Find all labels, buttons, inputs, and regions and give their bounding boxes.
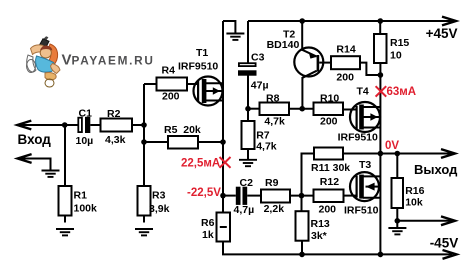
- svg-text:3k*: 3k*: [311, 230, 328, 242]
- svg-text:Вход: Вход: [18, 132, 52, 147]
- svg-text:+45V: +45V: [426, 26, 458, 41]
- svg-text:-22,5V: -22,5V: [187, 187, 221, 199]
- svg-text:22,5мА: 22,5мА: [181, 158, 220, 170]
- svg-text:R5 20k: R5 20k: [164, 124, 201, 136]
- svg-text:C3: C3: [251, 52, 265, 64]
- svg-text:IRF9510: IRF9510: [178, 61, 218, 73]
- svg-text:100k: 100k: [74, 203, 98, 215]
- svg-text:10k: 10k: [405, 197, 423, 209]
- svg-text:T4: T4: [357, 86, 369, 98]
- svg-text:200: 200: [320, 116, 338, 128]
- svg-text:4,7µ: 4,7µ: [234, 204, 255, 216]
- svg-text:R12: R12: [320, 176, 339, 188]
- svg-text:Выход: Выход: [414, 162, 458, 177]
- svg-text:R10: R10: [320, 92, 339, 104]
- svg-text:200: 200: [336, 72, 354, 84]
- svg-text:R2: R2: [107, 108, 121, 120]
- svg-text:R13: R13: [311, 218, 330, 230]
- svg-text:PAYAEM.RU: PAYAEM.RU: [72, 54, 155, 68]
- svg-text:V: V: [62, 52, 72, 69]
- svg-text:IRF9510: IRF9510: [338, 132, 378, 144]
- svg-text:1k: 1k: [202, 229, 214, 241]
- svg-text:C1: C1: [79, 108, 93, 120]
- svg-text:R3: R3: [152, 190, 166, 202]
- svg-text:2,2k: 2,2k: [264, 203, 285, 215]
- svg-text:10µ: 10µ: [76, 135, 94, 147]
- svg-text:R14: R14: [336, 44, 355, 56]
- svg-text:-45V: -45V: [430, 236, 459, 251]
- svg-text:C2: C2: [240, 177, 254, 189]
- svg-text:10: 10: [390, 50, 402, 62]
- svg-text:47µ: 47µ: [251, 80, 269, 92]
- svg-text:T3: T3: [359, 159, 371, 171]
- svg-text:200: 200: [162, 91, 180, 103]
- svg-text:R4: R4: [162, 65, 176, 77]
- svg-text:R1: R1: [74, 190, 88, 202]
- svg-text:4,7k: 4,7k: [256, 141, 277, 153]
- svg-text:R11 30k: R11 30k: [311, 162, 350, 174]
- svg-text:R15: R15: [390, 37, 409, 49]
- svg-text:R16: R16: [405, 185, 424, 197]
- svg-text:BD140: BD140: [267, 39, 300, 51]
- svg-text:4,7k: 4,7k: [264, 116, 285, 128]
- svg-text:R9: R9: [265, 177, 279, 189]
- svg-text:63мА: 63мА: [387, 86, 417, 98]
- svg-text:3,9k: 3,9k: [149, 203, 170, 215]
- svg-text:4,3k: 4,3k: [105, 134, 126, 146]
- svg-text:200: 200: [319, 204, 337, 216]
- svg-text:T1: T1: [196, 47, 208, 59]
- svg-text:0V: 0V: [385, 140, 399, 152]
- svg-text:R6: R6: [201, 217, 215, 229]
- svg-text:R8: R8: [266, 92, 280, 104]
- svg-text:IRF510: IRF510: [344, 205, 379, 217]
